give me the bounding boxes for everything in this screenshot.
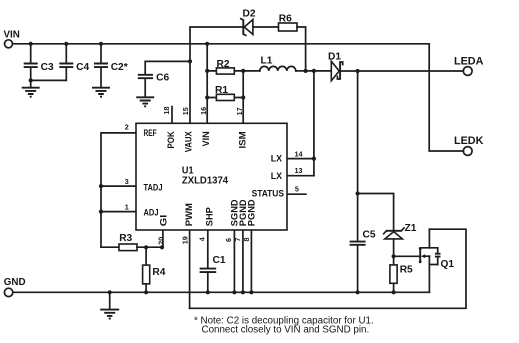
wire: LX pin 13	[287, 175, 314, 177]
node: C2* junction	[99, 42, 103, 46]
wire: C3-C4 bottom link	[29, 68, 67, 83]
wire: GND rail	[13, 291, 429, 293]
svg-text:2: 2	[125, 123, 129, 132]
capacitor C6	[138, 61, 190, 97]
wire: PGND stub 8	[249, 230, 253, 294]
svg-text:ZXLD1374: ZXLD1374	[182, 175, 229, 186]
ground (C6)	[136, 97, 154, 106]
pin number 8	[242, 238, 251, 242]
svg-text:VAUX: VAUX	[184, 131, 194, 152]
op-amp U1 ZXLD1374 (IC body)	[136, 123, 287, 230]
terminal LEDK	[454, 135, 484, 155]
svg-text:5: 5	[295, 185, 299, 194]
terminal GND	[4, 277, 26, 296]
pin number 20	[156, 237, 165, 245]
pin number 15	[181, 107, 190, 115]
wire: LX pin 14	[287, 157, 316, 161]
pin number 13	[295, 166, 303, 175]
svg-text:R6: R6	[279, 14, 292, 25]
pin number 4	[197, 237, 206, 241]
svg-text:D2: D2	[243, 8, 256, 19]
wire: PGND stub 7	[241, 230, 245, 294]
pin number 17	[235, 107, 244, 115]
capacitor C1 (SHP pin)	[200, 230, 226, 294]
svg-text:L1: L1	[261, 56, 273, 67]
svg-text:Z1: Z1	[405, 223, 417, 234]
wire: PWM loop	[190, 229, 466, 308]
svg-text:C1: C1	[213, 255, 226, 266]
transistor Q1	[419, 229, 455, 292]
node: L1-D1 node	[304, 69, 332, 73]
wire: VIN main rail to LEDK	[13, 44, 464, 151]
wire: Z1 branch	[358, 194, 394, 231]
ground (C2*)	[92, 88, 110, 97]
wire: R6 to L1/D1 node	[297, 27, 306, 71]
wire: POK stub	[171, 107, 173, 124]
svg-text:GND: GND	[4, 277, 26, 288]
svg-text:ADJ: ADJ	[144, 207, 159, 217]
node: gate node	[392, 254, 396, 258]
svg-text:GI: GI	[159, 215, 169, 227]
svg-text:1: 1	[125, 203, 129, 212]
node: C4 junction	[64, 42, 68, 46]
svg-text:PWM: PWM	[184, 203, 194, 226]
diode D2	[241, 8, 279, 35]
svg-text:20: 20	[156, 237, 165, 245]
zener Z1	[384, 223, 417, 256]
svg-text:6: 6	[224, 238, 233, 242]
pin number 5	[295, 185, 299, 194]
wire: PWM riser	[189, 230, 191, 308]
svg-text:C5: C5	[363, 230, 376, 241]
svg-text:LX: LX	[271, 154, 282, 164]
svg-text:Q1: Q1	[441, 259, 455, 270]
capacitor C4	[59, 44, 89, 73]
svg-text:8: 8	[242, 238, 251, 242]
wire: TADJ pin	[101, 185, 136, 187]
resistor R5	[390, 256, 413, 294]
ground (main)	[100, 290, 119, 318]
terminal VIN	[4, 29, 20, 47]
svg-text:C6: C6	[156, 72, 169, 83]
svg-text:16: 16	[199, 107, 208, 115]
pin number 3	[125, 177, 129, 186]
svg-text:SHP: SHP	[204, 207, 214, 226]
pin number 19	[180, 236, 189, 244]
wire: output branch down to C5	[356, 71, 360, 241]
inductor L1	[243, 56, 305, 71]
node: C3 junction	[29, 42, 33, 46]
svg-text:R3: R3	[119, 233, 132, 244]
wire: VAUX riser to D2	[190, 27, 243, 123]
wire: REF/TADJ/ADJ left bus	[99, 133, 136, 247]
svg-text:Connect closely to VIN and SGN: Connect closely to VIN and SGND pin.	[202, 325, 370, 336]
capacitor C5	[350, 230, 376, 295]
wire: STATUS pin 5	[287, 193, 306, 195]
resistor R3	[101, 233, 163, 251]
capacitor C2*	[94, 44, 128, 88]
pin number 2	[125, 123, 129, 132]
svg-text:ISM: ISM	[237, 131, 247, 148]
wire: GI pin stub	[144, 230, 164, 249]
wire: VIN pin riser	[205, 44, 209, 124]
svg-text:15: 15	[181, 107, 190, 115]
svg-text:13: 13	[295, 166, 303, 175]
node: C6 tap	[188, 59, 192, 63]
ground (C3)	[22, 80, 40, 96]
svg-text:LEDK: LEDK	[454, 135, 484, 147]
wire: ADJ pin	[101, 211, 136, 213]
svg-text:17: 17	[235, 107, 244, 115]
pin number 18	[162, 107, 171, 115]
resistor R4	[143, 247, 166, 294]
wire: D1 to LEDA	[340, 69, 463, 73]
svg-text:VIN: VIN	[4, 29, 20, 40]
wire: SGND stub	[232, 230, 236, 294]
svg-text:LX: LX	[271, 171, 282, 181]
resistor R6	[279, 14, 298, 31]
svg-text:R1: R1	[215, 85, 228, 96]
svg-text:R5: R5	[400, 265, 413, 276]
wire: ISM riser	[241, 69, 245, 124]
svg-text:VIN: VIN	[201, 131, 211, 146]
wire: LX riser	[313, 71, 315, 176]
pin number 14	[295, 150, 303, 159]
terminal LEDA	[454, 56, 484, 76]
diode D1	[328, 52, 343, 81]
wire: gate wire to Q1	[394, 255, 420, 257]
pin number 16	[199, 107, 208, 115]
svg-text:C2*: C2*	[111, 62, 128, 73]
svg-text:R2: R2	[217, 59, 230, 70]
svg-text:PGND: PGND	[247, 199, 257, 226]
pin number 1	[125, 203, 129, 212]
pin number 7	[233, 238, 242, 242]
svg-text:STATUS: STATUS	[252, 188, 284, 198]
svg-text:3: 3	[125, 177, 129, 186]
svg-text:REF: REF	[144, 128, 158, 138]
resistor R1	[207, 85, 243, 100]
svg-text:TADJ: TADJ	[144, 183, 163, 193]
note text	[194, 316, 374, 336]
svg-text:18: 18	[162, 107, 171, 115]
svg-text:POK: POK	[166, 131, 176, 149]
svg-text:4: 4	[197, 237, 206, 241]
resistor R2	[207, 59, 243, 74]
capacitor C3	[24, 44, 54, 81]
svg-text:7: 7	[233, 238, 242, 242]
node: VIN pin junction	[205, 42, 209, 46]
svg-text:19: 19	[180, 236, 189, 244]
svg-text:D1: D1	[328, 52, 341, 63]
svg-text:14: 14	[295, 150, 303, 159]
svg-text:LEDA: LEDA	[454, 56, 484, 68]
svg-text:C4: C4	[76, 62, 89, 73]
pin number 6	[224, 238, 233, 242]
svg-text:R4: R4	[152, 267, 165, 278]
svg-text:C3: C3	[41, 62, 54, 73]
